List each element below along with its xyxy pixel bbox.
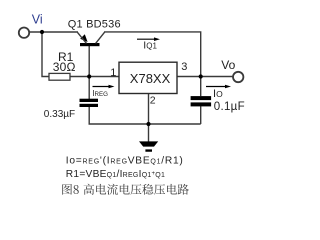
transistor Q1 collector lead <box>96 32 105 43</box>
wire R1 to pin 1 of U1 <box>70 76 119 78</box>
svg-text:0.1µF: 0.1µF <box>214 101 245 113</box>
terminal Vo <box>233 72 243 82</box>
svg-text:IQ1: IQ1 <box>143 40 157 52</box>
capacitor C2 top plate <box>191 96 212 100</box>
wire junction A down to R1 <box>42 32 49 77</box>
terminal Vi <box>19 28 29 38</box>
output node junction dot <box>199 74 203 78</box>
op-amp U1 X78XX regulator box <box>119 62 177 93</box>
wire pin 2 down to ground rail <box>148 94 150 125</box>
wire output node down to capacitor C2 <box>200 77 202 97</box>
svg-text:Vi: Vi <box>32 13 43 27</box>
transistor Q1 base bar <box>80 43 100 46</box>
ground node junction dot <box>146 122 150 126</box>
wire pin 3 to terminal Vo <box>177 76 233 78</box>
wire Vi to junction A <box>29 31 78 33</box>
svg-text:Io=REG'(IREGVBEQ1/R1): Io=REG'(IREGVBEQ1/R1) <box>66 155 184 166</box>
current arrow IREG <box>93 85 115 89</box>
svg-text:Vo: Vo <box>221 58 235 72</box>
capacitor C1 bottom plate <box>80 104 99 107</box>
resistor R1 body <box>49 73 70 80</box>
svg-text:30Ω: 30Ω <box>53 60 76 74</box>
node B junction dot <box>87 74 91 78</box>
svg-text:1: 1 <box>110 67 116 79</box>
wire C1 bottom down to ground rail <box>89 106 201 124</box>
current arrow Io <box>206 85 231 89</box>
svg-text:IO: IO <box>213 88 223 100</box>
wire ground junction down to ground symbol <box>148 124 150 142</box>
transistor Q1 emitter lead <box>78 32 87 43</box>
ground symbol <box>139 141 158 151</box>
wire node B down to capacitor C1 <box>88 77 90 100</box>
transistor Q1 emitter arrowhead <box>80 34 87 42</box>
capacitor C1 top plate <box>80 99 99 102</box>
current arrow IQ1 <box>137 37 160 41</box>
svg-text:X78XX: X78XX <box>130 71 171 86</box>
wire collector to top-right corner down to output node <box>104 32 201 77</box>
svg-text:Q1 BD536: Q1 BD536 <box>68 18 121 30</box>
svg-text:R1=VBEQ1/IREGIQ1+Q1: R1=VBEQ1/IREGIQ1+Q1 <box>66 169 165 180</box>
svg-text:0.33µF: 0.33µF <box>44 109 75 120</box>
wire C2 bottom down to ground rail <box>200 106 202 124</box>
svg-text:2: 2 <box>150 95 156 107</box>
wire base of Q1 down to node B <box>88 46 90 77</box>
svg-text:3: 3 <box>181 61 187 73</box>
node A junction dot <box>40 30 44 34</box>
svg-text:IREG: IREG <box>92 89 108 98</box>
caption 图8 高电流电压稳压电路 <box>62 184 188 195</box>
capacitor C2 bottom plate <box>191 102 212 106</box>
